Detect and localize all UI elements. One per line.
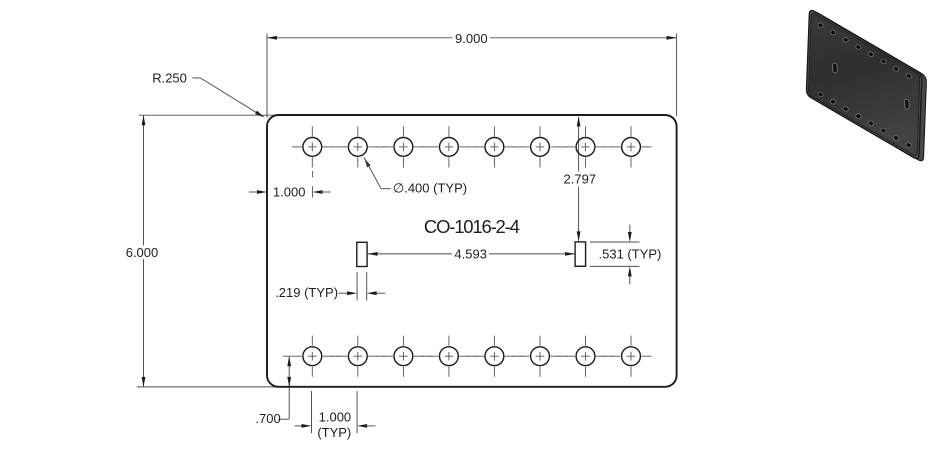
svg-text:.700: .700 — [255, 411, 280, 426]
svg-text:4.593: 4.593 — [454, 246, 487, 261]
svg-text:R.250: R.250 — [152, 71, 187, 86]
svg-text:6.000: 6.000 — [126, 245, 159, 260]
svg-text:CO-1016-2-4: CO-1016-2-4 — [424, 216, 520, 237]
svg-text:.219 (TYP): .219 (TYP) — [275, 285, 338, 300]
svg-text:(TYP): (TYP) — [317, 425, 351, 440]
svg-text:1.000: 1.000 — [273, 185, 306, 200]
svg-text:∅.400 (TYP): ∅.400 (TYP) — [393, 181, 467, 196]
svg-text:1.000: 1.000 — [319, 410, 352, 425]
svg-text:.531 (TYP): .531 (TYP) — [599, 247, 662, 262]
svg-text:2.797: 2.797 — [564, 172, 597, 187]
svg-text:9.000: 9.000 — [455, 31, 488, 46]
